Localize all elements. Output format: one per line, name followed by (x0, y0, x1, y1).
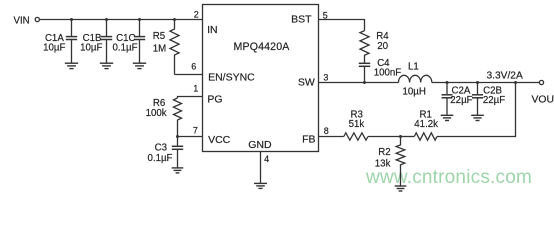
svg-text:3.3V/2A: 3.3V/2A (487, 70, 523, 81)
svg-text:41.2k: 41.2k (414, 119, 438, 130)
wire R1 to node (401, 136, 415, 138)
svg-text:51k: 51k (349, 119, 365, 130)
wire pin 7 VCC (178, 136, 203, 138)
ground C1B (100, 63, 113, 68)
wire L1 to VOUT (432, 82, 540, 84)
resistor R6 (174, 98, 182, 137)
svg-text:PG: PG (207, 94, 222, 106)
node junction C2B (476, 81, 479, 84)
capacitor C2B (472, 83, 483, 115)
node junction R5 (173, 18, 176, 21)
node junction VCC/C3 (176, 135, 179, 138)
wire feedback down and left (437, 83, 516, 137)
ground R2 (395, 186, 407, 191)
wire R5 to pin 6 (175, 74, 203, 76)
capacitor C1A (66, 20, 77, 63)
svg-text:EN/SYNC: EN/SYNC (208, 72, 255, 84)
svg-text:SW: SW (298, 77, 315, 89)
node VIN terminal (35, 17, 39, 21)
capacitor C1B (101, 20, 112, 63)
svg-text:4: 4 (264, 154, 269, 164)
svg-text:2: 2 (194, 10, 199, 20)
node junction C2A (446, 81, 449, 84)
svg-text:6: 6 (191, 62, 196, 72)
wire VIN to pin 2 (40, 19, 203, 21)
wire pin 5 BST (319, 20, 365, 31)
wire pin 8 FB (319, 136, 344, 138)
wire pin 4 GND (260, 152, 262, 184)
resistor R1 (414, 133, 437, 140)
ground C1A (65, 63, 78, 68)
svg-text:8: 8 (324, 126, 329, 136)
svg-text:10µH: 10µH (403, 87, 426, 98)
capacitor C1C (134, 20, 145, 63)
node junction C1B (105, 18, 108, 21)
ground pin 4 (254, 183, 267, 188)
ground C3 (172, 168, 184, 173)
svg-text:R2: R2 (378, 147, 390, 158)
node junction feedback tap (514, 81, 517, 84)
svg-text:1: 1 (193, 83, 198, 93)
wire pin 3 SW (319, 82, 399, 84)
svg-text:22µF: 22µF (483, 95, 505, 106)
svg-text:1M: 1M (153, 44, 166, 55)
svg-text:www.cntronics.com: www.cntronics.com (365, 167, 532, 188)
svg-text:20: 20 (377, 41, 388, 52)
svg-text:7: 7 (193, 126, 198, 136)
ground C2A (441, 115, 454, 120)
ground C2B (471, 115, 484, 120)
svg-text:100nF: 100nF (374, 68, 402, 79)
resistor R2 (396, 137, 405, 186)
node junction C4/SW (363, 81, 366, 84)
svg-text:C3: C3 (155, 142, 167, 153)
svg-text:100k: 100k (146, 108, 167, 119)
svg-text:10µF: 10µF (43, 42, 65, 53)
svg-text:22µF: 22µF (450, 95, 472, 106)
svg-text:13k: 13k (375, 159, 391, 170)
wire node to R3 (368, 136, 401, 138)
svg-text:IN: IN (207, 24, 218, 36)
capacitor C2A (442, 83, 453, 115)
resistor R4 (360, 31, 369, 63)
ground C1C (133, 63, 146, 68)
svg-text:R5: R5 (153, 31, 165, 42)
svg-text:3: 3 (323, 72, 328, 82)
svg-text:GND: GND (248, 139, 272, 151)
svg-text:VCC: VCC (208, 134, 231, 146)
capacitor C4 (359, 63, 370, 82)
svg-text:0.1µF: 0.1µF (113, 42, 138, 53)
svg-text:FB: FB (302, 134, 315, 146)
wire pin 1 PG (178, 97, 203, 99)
inductor L1 (399, 75, 432, 82)
svg-text:0.1µF: 0.1µF (148, 153, 173, 164)
svg-text:VOUT: VOUT (532, 94, 554, 105)
svg-text:MPQ4420A: MPQ4420A (234, 41, 291, 53)
node junction C1C (138, 18, 141, 21)
capacitor C3 (172, 137, 183, 168)
node junction FB divider (399, 135, 402, 138)
svg-text:10µF: 10µF (80, 42, 102, 53)
IC U1 MPQ4420A body (203, 5, 319, 152)
svg-text:L1: L1 (408, 61, 419, 72)
resistor R3 (344, 133, 368, 140)
node junction C1A (70, 18, 73, 21)
resistor R5 (170, 20, 179, 75)
svg-text:BST: BST (291, 13, 312, 25)
node VOUT terminal (539, 80, 543, 84)
svg-text:VIN: VIN (14, 15, 30, 26)
svg-text:5: 5 (323, 11, 328, 21)
